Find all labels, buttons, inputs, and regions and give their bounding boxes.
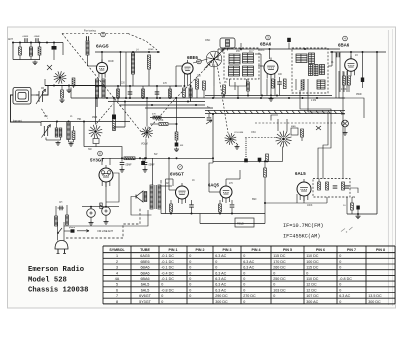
coil L2 FM xyxy=(131,53,134,74)
dial lamp xyxy=(341,113,348,127)
wire 6AL5 bottom xyxy=(265,194,327,203)
wire 6V6 grid xyxy=(168,157,176,190)
svg-text:4: 4 xyxy=(116,271,118,275)
svg-text:0: 0 xyxy=(339,266,341,270)
svg-text:0: 0 xyxy=(215,266,217,270)
IF T1 trimmer top xyxy=(243,53,254,63)
wire top bus to coils xyxy=(132,51,150,86)
svg-text:6.3 AC: 6.3 AC xyxy=(339,294,350,298)
resistor R9 xyxy=(343,72,351,93)
resistor R6 xyxy=(142,89,145,98)
svg-text:6BA6: 6BA6 xyxy=(140,266,149,270)
svg-text:270 DC: 270 DC xyxy=(243,294,256,298)
tube V2 numbered disc xyxy=(197,59,202,64)
band switch wafer xyxy=(89,117,103,138)
svg-text:0: 0 xyxy=(189,266,191,270)
label 6V6GT xyxy=(170,172,184,177)
wire bundle 1 xyxy=(300,90,331,179)
svg-text:PIN 3: PIN 3 xyxy=(223,248,232,252)
detector diode 2 xyxy=(326,182,329,190)
wire screen drop xyxy=(362,52,364,78)
resistor 6BE6 bias xyxy=(183,79,206,98)
resistor R5 xyxy=(117,89,120,98)
capacitor C8 xyxy=(277,77,286,96)
svg-text:6.3 AC: 6.3 AC xyxy=(215,288,226,292)
antenna coil vertical xyxy=(86,36,89,66)
resistor R2 line filter xyxy=(38,43,41,60)
svg-text:AVC: AVC xyxy=(260,49,265,52)
resistor R1 line filter xyxy=(19,43,22,60)
wire det bottom bus xyxy=(246,160,283,162)
capacitor 05MF b xyxy=(143,158,156,172)
capacitor C15 det xyxy=(356,206,361,219)
capacitor det blob xyxy=(244,159,248,163)
filter electrolytic C20 xyxy=(87,207,96,218)
antenna terminal xyxy=(8,38,13,60)
svg-text:TUBE: TUBE xyxy=(140,248,150,252)
label FM LINE ANT xyxy=(77,229,113,232)
svg-text:FIELD: FIELD xyxy=(237,223,244,226)
resistor R7 xyxy=(169,89,172,98)
svg-text:6.3 AC: 6.3 AC xyxy=(215,277,226,281)
wire plug to transformer xyxy=(64,210,148,233)
wire switch to rectifier xyxy=(84,147,122,159)
svg-text:8: 8 xyxy=(116,300,118,304)
coil 6BE6 osc xyxy=(189,88,192,102)
svg-text:0: 0 xyxy=(306,271,308,275)
wire loop ground xyxy=(11,95,42,122)
wire bus y108 right xyxy=(145,107,213,109)
resistor near C20 xyxy=(100,203,102,209)
wire filter right end xyxy=(62,43,64,56)
capacitor C5 xyxy=(128,92,133,94)
output transformer xyxy=(150,185,161,209)
IF T2 primary xyxy=(296,54,307,63)
ground dial lamp xyxy=(343,127,348,135)
svg-text:-0.8 DC: -0.8 DC xyxy=(339,277,352,281)
svg-text:.05MF: .05MF xyxy=(22,36,29,38)
capacitor line xyxy=(58,206,65,211)
tube V3 numbered disc xyxy=(266,35,271,40)
svg-text:1K: 1K xyxy=(192,180,195,182)
svg-text:103 DC: 103 DC xyxy=(273,288,286,292)
variable capacitor AM tuning xyxy=(41,122,51,141)
page right edge shading xyxy=(389,29,393,306)
svg-text:6AG5: 6AG5 xyxy=(96,44,109,50)
AM oscillator coil box xyxy=(220,38,235,51)
svg-text:0: 0 xyxy=(273,271,275,275)
svg-text:1: 1 xyxy=(116,254,118,258)
dashed gang line to RF cap xyxy=(62,34,159,135)
discriminator star xyxy=(275,131,291,147)
svg-text:PIN 6: PIN 6 xyxy=(316,248,325,252)
IF T1 secondary xyxy=(229,66,240,76)
svg-text:FM LINE ANT: FM LINE ANT xyxy=(98,230,114,233)
switch lower box xyxy=(93,139,99,147)
wire loop to grid xyxy=(36,86,48,95)
svg-text:0: 0 xyxy=(243,300,245,304)
svg-text:0: 0 xyxy=(161,294,163,298)
wire filter to chassis xyxy=(70,88,72,99)
capacitor osc blob xyxy=(112,98,116,119)
ground AM cluster 2 xyxy=(69,140,74,147)
svg-text:300 DC: 300 DC xyxy=(368,300,381,304)
detector diode 3 xyxy=(342,182,345,190)
label 6AL5 xyxy=(295,171,306,176)
svg-text:290 DC: 290 DC xyxy=(215,294,228,298)
tube V7 numbered disc xyxy=(178,165,183,170)
svg-text:0: 0 xyxy=(273,283,275,287)
svg-text:OSC: OSC xyxy=(251,132,256,134)
svg-text:100 DC: 100 DC xyxy=(306,260,319,264)
svg-text:6.3 AC: 6.3 AC xyxy=(215,283,226,287)
svg-text:6BA6: 6BA6 xyxy=(140,277,149,281)
wire plate 6AG5 xyxy=(101,51,103,62)
speaker xyxy=(131,191,152,215)
volume control pot xyxy=(141,127,153,146)
capacitor C1 .05MF xyxy=(22,36,29,43)
wire grid 6AG5 xyxy=(90,65,96,67)
svg-text:2.2M: 2.2M xyxy=(311,100,316,102)
wire T1 to 6BA6 xyxy=(230,43,264,98)
svg-text:Emerson Radio: Emerson Radio xyxy=(28,266,84,274)
svg-text:110 DC: 110 DC xyxy=(306,254,319,258)
resistor det 267 xyxy=(266,154,269,162)
svg-text:0: 0 xyxy=(339,300,341,304)
label 5Y3GT xyxy=(90,157,104,162)
wire OT to plate xyxy=(160,180,173,186)
svg-text:0: 0 xyxy=(189,260,191,264)
svg-text:7: 7 xyxy=(116,294,118,298)
svg-text:0: 0 xyxy=(243,283,245,287)
svg-text:75K: 75K xyxy=(77,118,82,121)
ground cathode area xyxy=(67,86,74,93)
wire switch drop xyxy=(95,98,97,125)
svg-text:8MF: 8MF xyxy=(252,199,257,201)
trimmer marks xyxy=(47,65,52,70)
IF transformer T2 shield box xyxy=(292,48,328,93)
wire OT bottom xyxy=(160,210,162,214)
svg-text:300 AC: 300 AC xyxy=(306,300,318,304)
AM oscillator coil xyxy=(67,122,70,140)
svg-text:0: 0 xyxy=(161,300,163,304)
tube V1 6AG5 xyxy=(96,59,107,78)
dashed on-off link xyxy=(66,207,140,238)
wire bundle verticals xyxy=(339,71,347,92)
ground 6BA6 xyxy=(269,95,274,102)
svg-text:0: 0 xyxy=(339,254,341,258)
wire osc cap xyxy=(193,59,214,98)
wire bus y95.5 xyxy=(205,95,332,97)
tube V6 6AQ5 xyxy=(220,183,232,203)
svg-text:01MF: 01MF xyxy=(148,49,154,51)
detector filter shield box xyxy=(313,179,350,198)
resistor R8 6BA6 cathode xyxy=(271,79,274,88)
resistor R12 cathode 6V6 xyxy=(170,200,194,214)
svg-text:SYMBOL: SYMBOL xyxy=(109,248,125,252)
svg-text:OSC: OSC xyxy=(205,39,210,42)
wire volume wiper xyxy=(150,123,159,125)
wire drop from IFT2 xyxy=(296,79,308,90)
wire bus y101.5 xyxy=(108,101,205,103)
line choke 2 xyxy=(66,205,69,225)
wire rectifier plates top xyxy=(102,158,110,165)
wire filter caps bus xyxy=(82,206,119,208)
B plus bus hatching xyxy=(208,111,343,114)
label 6BA6 first IF xyxy=(260,42,272,47)
svg-text:-0.1 DC: -0.1 DC xyxy=(161,254,174,258)
svg-text:Chassis 120038: Chassis 120038 xyxy=(28,287,88,295)
ground AM cluster xyxy=(46,140,61,145)
svg-text:0: 0 xyxy=(339,260,341,264)
capacitor C14 xyxy=(230,200,235,214)
resistor R AM osc xyxy=(72,126,75,140)
field coil box xyxy=(235,218,254,227)
svg-text:0: 0 xyxy=(339,288,341,292)
svg-text:phono: phono xyxy=(69,227,76,229)
svg-text:MED: MED xyxy=(291,126,296,128)
pencil smudge marks xyxy=(341,227,353,233)
trimmer X xyxy=(291,126,321,141)
wire disc drops xyxy=(271,115,287,132)
tube V8 5Y3GT xyxy=(99,165,113,187)
resistor R3b xyxy=(72,78,75,86)
wire 6BA6 pins xyxy=(267,79,275,96)
wire bus left cap xyxy=(206,114,212,124)
dashed gang line top xyxy=(62,33,128,35)
svg-text:6.3 AC: 6.3 AC xyxy=(243,266,254,270)
svg-text:0: 0 xyxy=(189,277,191,281)
svg-text:1500: 1500 xyxy=(92,117,98,119)
loop antenna xyxy=(13,88,36,105)
svg-text:PIN 1: PIN 1 xyxy=(169,248,178,252)
svg-text:6: 6 xyxy=(116,288,118,292)
wire plate bus y157.5 xyxy=(102,139,213,165)
svg-text:12 DC: 12 DC xyxy=(306,283,317,287)
IF T2 coil a xyxy=(309,65,313,76)
resistor R osc drop xyxy=(113,116,116,131)
detector cap 1 xyxy=(333,186,338,188)
wire T2 to 6BA6 2 xyxy=(255,38,333,96)
ground grid chain xyxy=(174,148,179,152)
wire 6AQ5 grid xyxy=(209,163,220,192)
cathode coil xyxy=(44,79,46,86)
IF T1 trimmer bottom xyxy=(243,66,254,76)
wire det box bottom xyxy=(327,197,347,214)
svg-text:.05MF: .05MF xyxy=(125,165,132,167)
IF T2 bars low xyxy=(317,80,325,89)
svg-text:6AQ5: 6AQ5 xyxy=(208,183,220,188)
svg-text:6BA6: 6BA6 xyxy=(338,43,350,48)
svg-text:-0.1 DC: -0.1 DC xyxy=(161,266,174,270)
wire 6AG5 top bus xyxy=(95,51,160,53)
svg-text:2: 2 xyxy=(116,260,118,264)
svg-text:13.5 DC: 13.5 DC xyxy=(368,294,382,298)
cathode starburst xyxy=(54,71,67,84)
wire bus y121.5 xyxy=(41,121,130,123)
svg-text:0: 0 xyxy=(339,283,341,287)
filter electrolytic C21 xyxy=(100,203,110,215)
svg-text:470K: 470K xyxy=(158,120,164,122)
voltage table grid xyxy=(103,246,395,304)
wire bus y86 drop b xyxy=(129,85,131,99)
svg-text:-0.4 DC: -0.4 DC xyxy=(161,271,174,275)
svg-text:PIN 2: PIN 2 xyxy=(196,248,205,252)
svg-text:6.3 AC: 6.3 AC xyxy=(215,271,226,275)
grid coil 6AG5 xyxy=(88,65,91,67)
svg-text:6AL5: 6AL5 xyxy=(141,283,150,287)
wire bottom right bus xyxy=(343,205,377,215)
svg-text:5Y3GT: 5Y3GT xyxy=(139,300,151,304)
misc component value labels xyxy=(44,49,362,207)
svg-text:PIN 4: PIN 4 xyxy=(252,248,261,252)
resistor 470K xyxy=(158,120,178,125)
wire filter lower xyxy=(13,59,40,61)
svg-text:0: 0 xyxy=(189,271,191,275)
ground tone pot xyxy=(235,143,240,149)
label 6BA6 second IF xyxy=(338,43,350,48)
svg-text:6.3 AC: 6.3 AC xyxy=(243,260,254,264)
label 75K xyxy=(77,118,82,121)
svg-text:6AG5: 6AG5 xyxy=(140,254,149,258)
svg-text:VOLUME: VOLUME xyxy=(234,132,244,134)
dashed gang segment c xyxy=(144,107,168,134)
svg-text:PIN 7: PIN 7 xyxy=(347,248,356,252)
svg-text:6AL5: 6AL5 xyxy=(141,288,150,292)
caption Emerson Radio xyxy=(28,266,88,295)
svg-text:5: 5 xyxy=(116,283,118,287)
tube V4 6BA6 xyxy=(345,56,358,77)
dashed gang segment a xyxy=(42,109,48,119)
dashed link det xyxy=(245,137,275,139)
variable capacitor RF tuning xyxy=(36,89,46,104)
ground 6AG5 cathode xyxy=(60,99,65,103)
oscillator tuning capacitor xyxy=(205,50,224,69)
svg-text:12 DC: 12 DC xyxy=(306,288,317,292)
resistor R3 6AG5 cathode xyxy=(61,86,64,99)
wire AVC bus y49 xyxy=(218,48,340,60)
svg-text:0: 0 xyxy=(215,260,217,264)
wire 6V6 cathode bus xyxy=(161,213,265,215)
resistor R14 det xyxy=(351,197,354,214)
svg-text:0: 0 xyxy=(189,283,191,287)
svg-text:6BE6: 6BE6 xyxy=(140,260,149,264)
svg-text:100K: 100K xyxy=(307,205,313,207)
svg-text:PIN 8: PIN 8 xyxy=(376,248,385,252)
capacitor filter blob xyxy=(52,42,57,61)
svg-text:6AL5: 6AL5 xyxy=(295,171,306,176)
svg-text:6V6GT: 6V6GT xyxy=(170,172,184,177)
dashed gang segment e xyxy=(217,64,228,133)
wire 6AQ5 plate top xyxy=(226,170,240,183)
label 6AQ5 xyxy=(208,183,220,188)
svg-text:0: 0 xyxy=(243,254,245,258)
svg-text:10.7: 10.7 xyxy=(249,51,254,53)
wire osc section xyxy=(114,102,125,131)
svg-text:VOLM: VOLM xyxy=(141,144,148,146)
svg-text:01MF: 01MF xyxy=(108,61,114,63)
wire bus y86 drop c xyxy=(142,86,144,99)
svg-text:107 DC: 107 DC xyxy=(306,294,319,298)
capacitor chain blob xyxy=(175,140,184,147)
cathode wire 6AG5 xyxy=(45,85,102,87)
wire y223 bus xyxy=(200,223,265,225)
wire rect side xyxy=(106,173,119,202)
resistor R4 xyxy=(148,55,151,69)
svg-text:.05MF: .05MF xyxy=(148,165,155,167)
wire volume drop xyxy=(146,98,148,127)
FM RF plate coil xyxy=(95,79,105,98)
svg-text:-0.1 DC: -0.1 DC xyxy=(161,277,174,281)
label 6BE6 xyxy=(187,55,199,60)
svg-text:250 DC: 250 DC xyxy=(273,277,286,281)
tube V3 6BA6 xyxy=(264,58,278,80)
svg-text:-0.1 DC: -0.1 DC xyxy=(161,260,174,264)
dashed gang segment d xyxy=(168,62,212,106)
svg-text:6BA6: 6BA6 xyxy=(260,42,272,47)
IF T2 coil b xyxy=(314,65,318,76)
svg-text:6.3 AC: 6.3 AC xyxy=(215,254,226,258)
svg-text:05MF: 05MF xyxy=(356,94,362,96)
resistor 100K chain xyxy=(175,132,178,140)
wire det bus to audio xyxy=(213,160,246,162)
svg-text:PIN 5: PIN 5 xyxy=(283,248,292,252)
label IF frequencies xyxy=(283,223,323,240)
capacitor 05MF a xyxy=(120,158,133,172)
volume tone pot xyxy=(225,132,244,145)
dashed switch gang line xyxy=(255,122,336,124)
svg-text:6BE6: 6BE6 xyxy=(187,55,199,60)
B plus double bus xyxy=(205,111,345,114)
IF transformer T1 shield box xyxy=(224,48,259,79)
svg-text:22K: 22K xyxy=(197,76,202,78)
wire top bus right xyxy=(330,51,386,53)
svg-text:110 DC: 110 DC xyxy=(306,277,319,281)
svg-text:300 DC: 300 DC xyxy=(215,300,228,304)
tube V5 6AL5 xyxy=(297,179,311,201)
wire mid y163 xyxy=(212,161,214,163)
wire y223 to y213 xyxy=(200,160,266,223)
label osc xyxy=(205,39,210,42)
svg-text:4A: 4A xyxy=(115,277,120,281)
detector diode 1 xyxy=(318,179,321,191)
svg-text:6BA6: 6BA6 xyxy=(140,271,149,275)
svg-text:47K: 47K xyxy=(152,114,156,116)
coil line filter xyxy=(29,43,32,60)
svg-text:CH: CH xyxy=(59,202,63,204)
wire right vertical main xyxy=(376,52,378,214)
wire bus y117.5 xyxy=(150,114,205,119)
wire mid vertical x213 xyxy=(212,113,214,161)
ground line filter xyxy=(33,61,38,65)
resistor series 157 xyxy=(124,157,135,160)
tube V2 6BE6 xyxy=(182,60,193,79)
detector coil dotted xyxy=(245,139,247,159)
svg-text:0: 0 xyxy=(189,254,191,258)
capacitor C9 xyxy=(336,52,340,98)
capacitor det blob 2 xyxy=(258,158,262,162)
wire rectifier output xyxy=(105,182,107,207)
wire bus y86 drop e xyxy=(169,86,171,99)
IF T2 res xyxy=(301,80,304,90)
capacitor C10 black xyxy=(361,78,364,89)
wire V4 plate xyxy=(350,52,352,59)
AC plug xyxy=(55,222,68,254)
label FM TUNING xyxy=(84,29,96,33)
wire bus y86 xyxy=(95,85,182,87)
wire antenna input top xyxy=(12,42,63,44)
label 6AG5 xyxy=(96,44,109,50)
